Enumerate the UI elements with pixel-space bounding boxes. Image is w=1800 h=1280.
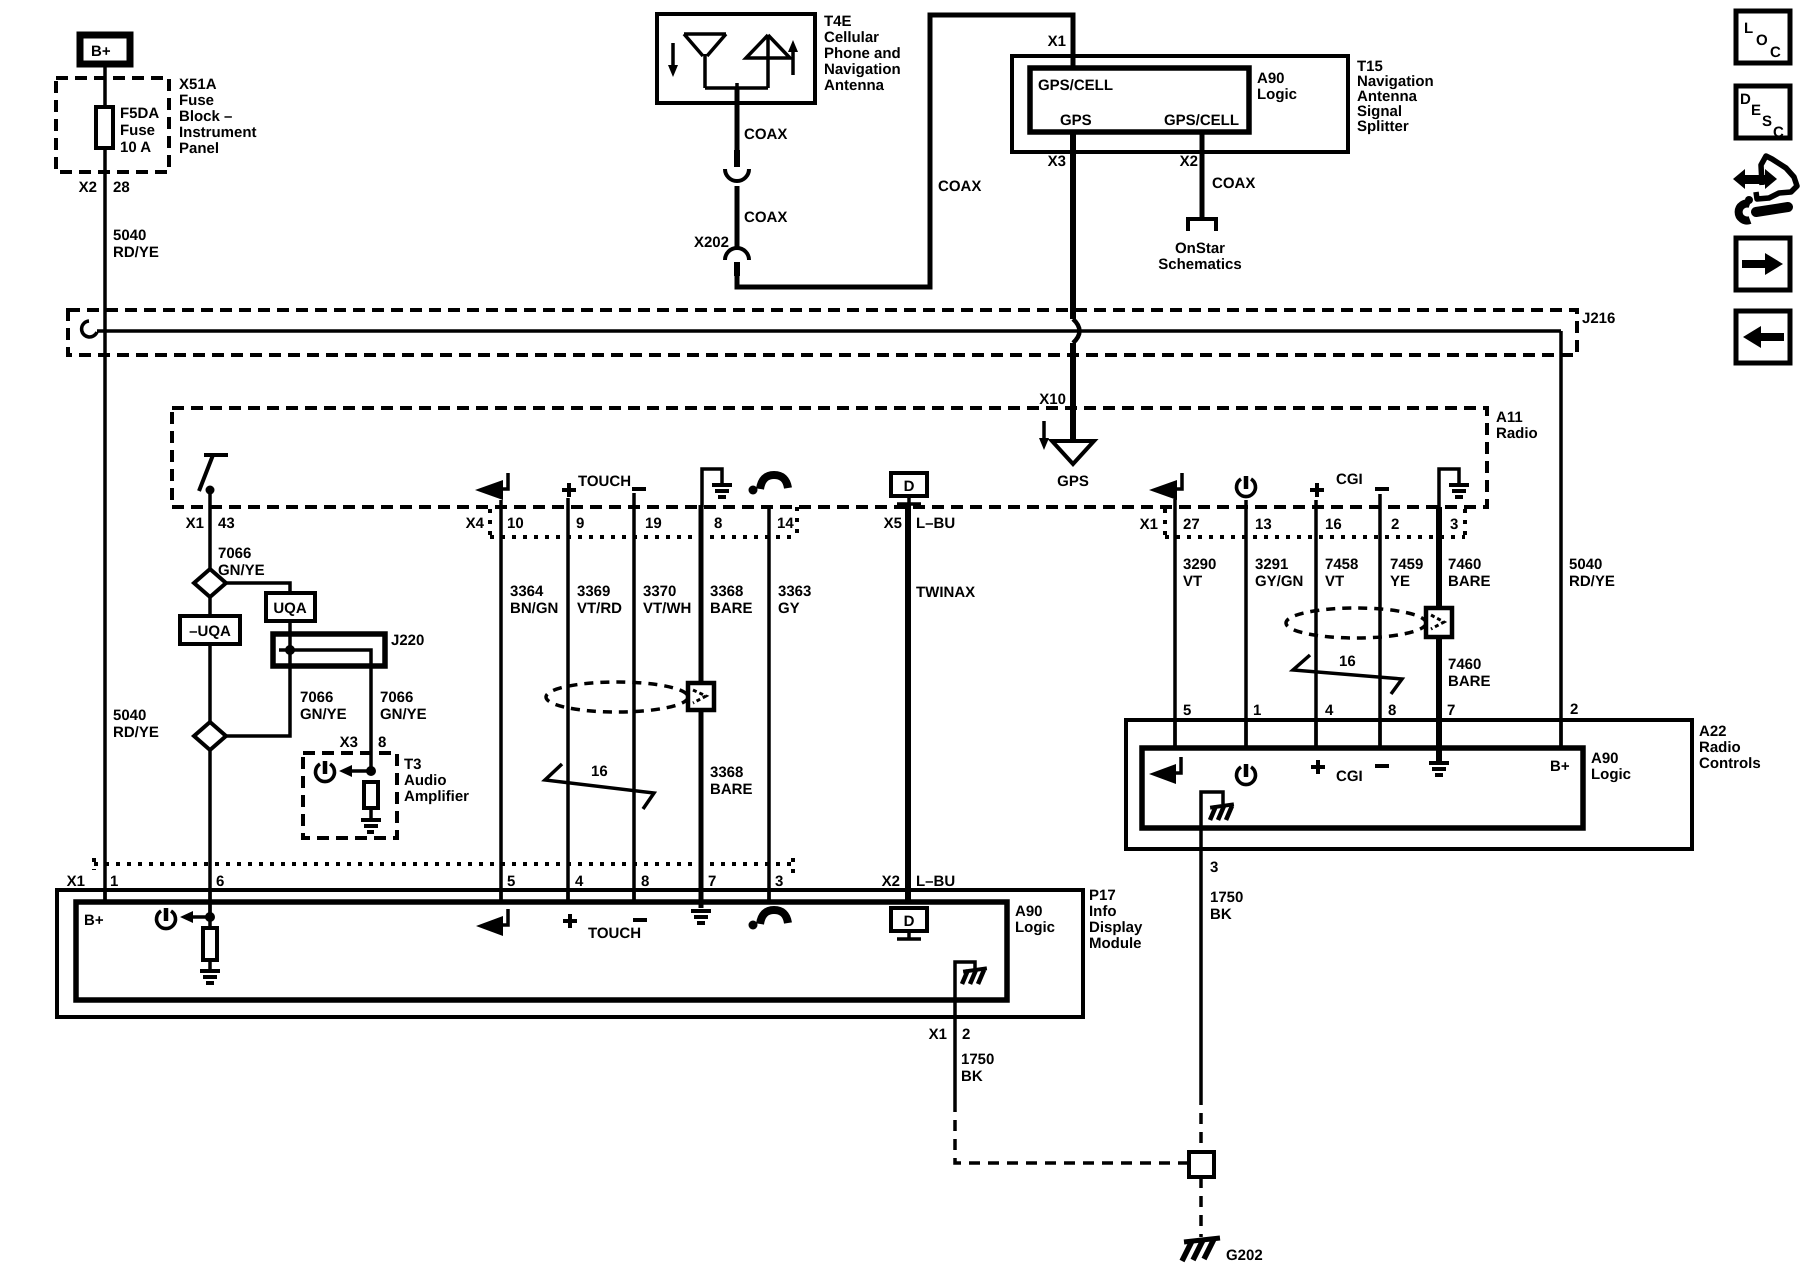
svg-text:5: 5 xyxy=(1183,702,1191,719)
wire 5040 RD/YE J216 to A22 pin 2 xyxy=(1559,331,1563,748)
svg-text:4: 4 xyxy=(575,873,584,890)
svg-text:Logic: Logic xyxy=(1257,86,1297,103)
UQA box xyxy=(266,593,315,621)
wire 3369 VT/RD pin9 to P17 pin4 xyxy=(566,498,570,902)
radio display icon D xyxy=(891,473,927,504)
gps coax wire splitter X3 to radio X10 xyxy=(1070,132,1076,455)
wire label 7458 VT xyxy=(1325,556,1358,590)
A22 CGI minus xyxy=(1375,764,1389,768)
ground splice box xyxy=(1189,1152,1214,1177)
svg-text:X2: X2 xyxy=(1180,153,1198,170)
P17 TOUCH minus xyxy=(633,918,647,922)
svg-text:BK: BK xyxy=(961,1068,983,1085)
wire 3290 VT pin27 to A22 pin5 xyxy=(1173,499,1177,748)
svg-text:Instrument: Instrument xyxy=(179,124,257,141)
wire 7460 BARE pin3 to A22 pin7 xyxy=(1436,507,1442,762)
svg-text:Fuse: Fuse xyxy=(179,92,214,109)
svg-text:3: 3 xyxy=(1450,516,1458,533)
svg-text:T3: T3 xyxy=(404,756,422,773)
svg-text:X202: X202 xyxy=(694,234,729,251)
svg-text:6: 6 xyxy=(216,873,224,890)
wire label 7066 GN/YE right branch xyxy=(380,689,427,723)
svg-text:S: S xyxy=(1762,113,1772,130)
svg-text:8: 8 xyxy=(1388,702,1396,719)
svg-text:COAX: COAX xyxy=(938,178,981,195)
radio name label A11 xyxy=(1496,409,1538,442)
P17 info display module outer box xyxy=(57,890,1083,1017)
svg-text:J216: J216 xyxy=(1582,310,1615,327)
wire label 3291 GY/GN xyxy=(1255,556,1303,590)
svg-text:3: 3 xyxy=(1210,859,1218,876)
svg-text:Phone and: Phone and xyxy=(824,45,901,62)
P17 phone icon xyxy=(749,910,789,930)
svg-text:X2: X2 xyxy=(882,873,900,890)
svg-text:Logic: Logic xyxy=(1591,766,1631,783)
svg-text:Audio: Audio xyxy=(404,772,447,789)
svg-text:10 A: 10 A xyxy=(120,139,151,156)
svg-text:1: 1 xyxy=(110,873,118,890)
shield termination square right xyxy=(1426,608,1452,637)
wire diamond chain mid xyxy=(208,597,212,722)
wire label 3369 VT/RD xyxy=(577,583,622,617)
svg-text:3364: 3364 xyxy=(510,583,544,600)
coax wire X202 to splitter X1 xyxy=(734,262,740,276)
antenna name label T4E xyxy=(824,13,901,94)
svg-text:X2: X2 xyxy=(79,179,97,196)
T3 name label xyxy=(404,756,469,805)
svg-text:GY/GN: GY/GN xyxy=(1255,573,1303,590)
svg-text:P17: P17 xyxy=(1089,887,1116,904)
svg-text:3368: 3368 xyxy=(710,764,743,781)
radio speaker icon xyxy=(475,473,508,500)
svg-text:3370: 3370 xyxy=(643,583,676,600)
svg-text:RD/YE: RD/YE xyxy=(1569,573,1615,590)
svg-text:GY: GY xyxy=(778,600,800,617)
A22 A90 Logic label xyxy=(1591,750,1631,783)
P17 A90 logic inner box xyxy=(76,902,1007,1000)
P17 name label xyxy=(1089,887,1143,952)
wire 7459 YE pin2 to A22 pin8 xyxy=(1378,494,1382,748)
P17 pin callout X2 L-BU xyxy=(882,873,956,890)
svg-text:Amplifier: Amplifier xyxy=(404,788,469,805)
radio CGI minus xyxy=(1375,487,1389,491)
radio connector X1 dotted outline right xyxy=(1140,509,1465,537)
receive arrow xyxy=(668,43,678,77)
svg-text:YE: YE xyxy=(1390,573,1410,590)
svg-text:27: 27 xyxy=(1183,516,1200,533)
svg-text:J220: J220 xyxy=(391,632,424,649)
svg-text:3369: 3369 xyxy=(577,583,610,600)
16-way crossing marker left xyxy=(545,763,654,809)
A22 wires into inner box xyxy=(1175,720,1561,748)
svg-text:TOUCH: TOUCH xyxy=(578,473,631,490)
svg-text:TOUCH: TOUCH xyxy=(588,925,641,942)
svg-text:BARE: BARE xyxy=(1448,673,1491,690)
wire 3370 VT/WH pin19 to P17 pin8 xyxy=(632,493,636,902)
splitter name label T15 xyxy=(1357,58,1434,135)
splitter A90 Logic label xyxy=(1257,70,1297,103)
wire label 7460 BARE lower xyxy=(1448,656,1491,690)
OnStar off-page connector xyxy=(1188,219,1216,231)
radio CGI plus xyxy=(1310,483,1324,497)
svg-text:7066: 7066 xyxy=(380,689,413,706)
svg-text:BARE: BARE xyxy=(710,600,753,617)
svg-text:RD/YE: RD/YE xyxy=(113,724,159,741)
svg-text:BN/GN: BN/GN xyxy=(510,600,558,617)
svg-text:Panel: Panel xyxy=(179,140,219,157)
svg-text:4: 4 xyxy=(1325,702,1334,719)
svg-text:1: 1 xyxy=(1253,702,1261,719)
svg-text:T4E: T4E xyxy=(824,13,852,30)
radio TOUCH minus xyxy=(632,487,646,491)
svg-text:X10: X10 xyxy=(1039,391,1066,408)
wire label 3368 BARE lower xyxy=(710,764,753,798)
radio ground icon pin 8 xyxy=(702,469,732,507)
wire 3364 BN/GN pin10 to P17 pin5 xyxy=(499,500,503,902)
svg-text:C: C xyxy=(1770,44,1781,61)
P17 speaker icon xyxy=(476,909,508,936)
wire label 3290 VT xyxy=(1183,556,1216,590)
svg-text:Radio: Radio xyxy=(1699,739,1741,756)
svg-text:14: 14 xyxy=(777,515,794,532)
svg-text:OnStar: OnStar xyxy=(1175,240,1225,257)
P17 arrow to power xyxy=(180,911,215,923)
svg-text:19: 19 xyxy=(645,515,662,532)
fuse F5DA xyxy=(96,107,113,148)
fuse block X51A dashed box xyxy=(56,78,169,172)
coax wire between connector halves xyxy=(735,186,740,247)
splitter A90 logic inner box xyxy=(1030,68,1249,132)
svg-text:D: D xyxy=(904,913,915,930)
wire diamond lower to P17 pin 6 xyxy=(208,750,212,917)
svg-text:BARE: BARE xyxy=(1448,573,1491,590)
P17 ground wire down xyxy=(953,1015,957,1101)
wire diamond to UQA xyxy=(226,583,290,593)
T3 power icon xyxy=(316,761,335,782)
dashed wire to G202 xyxy=(1199,1177,1203,1237)
svg-text:7459: 7459 xyxy=(1390,556,1423,573)
svg-text:7066: 7066 xyxy=(218,545,251,562)
svg-text:A90: A90 xyxy=(1591,750,1619,767)
svg-text:CGI: CGI xyxy=(1336,768,1363,785)
svg-text:X5: X5 xyxy=(884,515,902,532)
P17 pin callout X1 1 xyxy=(67,873,119,890)
P17 power icon xyxy=(157,908,176,929)
P17 display icon D xyxy=(891,908,927,939)
sidebar component-view icon (double arrow, car outline, wrench) xyxy=(1733,156,1797,221)
OnStar Schematics label xyxy=(1158,240,1241,273)
dashed ground wire from A22 xyxy=(1199,1094,1203,1150)
svg-text:UQA: UQA xyxy=(273,600,307,617)
svg-text:8: 8 xyxy=(714,515,722,532)
fuse value label xyxy=(120,105,159,156)
svg-text:GN/YE: GN/YE xyxy=(380,706,427,723)
svg-text:7460: 7460 xyxy=(1448,656,1481,673)
svg-text:COAX: COAX xyxy=(744,209,787,226)
T3 pin callout X3 8 xyxy=(340,734,387,751)
splitter T15 outer box xyxy=(1012,56,1348,152)
wire UQA through J220 to lower run xyxy=(226,621,290,736)
svg-text:VT/RD: VT/RD xyxy=(577,600,622,617)
antenna feed joiner xyxy=(705,83,768,88)
svg-text:3: 3 xyxy=(775,873,783,890)
16-way crossing marker right xyxy=(1293,653,1402,694)
P17 connector dotted line xyxy=(94,858,794,876)
svg-text:7460: 7460 xyxy=(1448,556,1481,573)
svg-text:16: 16 xyxy=(591,763,608,780)
P17 ground below resistor xyxy=(200,960,220,983)
svg-text:Radio: Radio xyxy=(1496,425,1538,442)
coax wire X2 to OnStar xyxy=(1200,132,1205,218)
svg-text:3368: 3368 xyxy=(710,583,743,600)
svg-text:Cellular: Cellular xyxy=(824,29,879,46)
gps antenna symbol xyxy=(746,35,790,88)
radio antenna switch icon xyxy=(199,455,228,495)
transmit arrow xyxy=(788,40,798,75)
wire J220 to T3 pin 8 xyxy=(369,664,373,771)
A22 CGI plus xyxy=(1311,760,1325,774)
shield ellipse left xyxy=(546,682,688,712)
A22 A90 logic inner box xyxy=(1142,748,1583,828)
svg-text:E: E xyxy=(1751,102,1761,119)
A22 radio controls outer box xyxy=(1126,720,1692,849)
A22 power icon xyxy=(1237,764,1256,785)
wire label 5040 RD/YE mid xyxy=(113,707,159,741)
radio phone icon xyxy=(749,475,789,495)
cellular antenna symbol xyxy=(684,34,726,88)
svg-text:2: 2 xyxy=(1570,701,1578,718)
harness bus line with hook xyxy=(82,321,1561,337)
connector X2 pin 28 callout xyxy=(79,179,130,196)
T3 audio amplifier dashed box xyxy=(303,753,397,838)
svg-text:GPS: GPS xyxy=(1060,112,1092,129)
wire 3291 GY/GN pin13 to A22 pin1 xyxy=(1244,500,1248,748)
radio TOUCH plus xyxy=(562,483,576,497)
wire label 7459 YE xyxy=(1390,556,1423,590)
svg-text:3290: 3290 xyxy=(1183,556,1216,573)
radio power icon xyxy=(1237,476,1256,497)
antenna T4E box xyxy=(657,14,815,103)
svg-text:Fuse: Fuse xyxy=(120,122,155,139)
sidebar LOC button xyxy=(1736,11,1790,63)
svg-text:X3: X3 xyxy=(1048,153,1066,170)
svg-text:COAX: COAX xyxy=(744,126,787,143)
radio pin numbers X1 group xyxy=(1183,516,1458,533)
svg-text:X1: X1 xyxy=(186,515,204,532)
svg-text:L–BU: L–BU xyxy=(916,873,955,890)
svg-text:VT: VT xyxy=(1183,573,1202,590)
svg-text:Antenna: Antenna xyxy=(824,77,885,94)
gps receive arrow xyxy=(1039,421,1049,450)
splice diamond lower xyxy=(194,722,226,750)
svg-text:5040: 5040 xyxy=(1569,556,1602,573)
svg-text:A11: A11 xyxy=(1496,409,1523,426)
splice diamond upper xyxy=(194,569,226,597)
svg-text:8: 8 xyxy=(378,734,386,751)
svg-text:43: 43 xyxy=(218,515,235,532)
junction J220 box xyxy=(273,634,385,666)
svg-text:C: C xyxy=(1773,124,1784,141)
P17 wires into inner box xyxy=(105,890,769,917)
svg-text:28: 28 xyxy=(113,179,130,196)
coax wire antenna to connector xyxy=(735,88,740,150)
svg-text:Module: Module xyxy=(1089,935,1142,952)
wire 7458 VT pin16 to A22 pin4 xyxy=(1314,500,1318,748)
wire label 5040 RD/YE upper xyxy=(113,227,159,261)
svg-text:TWINAX: TWINAX xyxy=(916,584,975,601)
power feed B+ terminal xyxy=(80,35,130,64)
wire TWINAX X5 to P17 X2 xyxy=(905,505,911,902)
svg-text:X3: X3 xyxy=(340,734,358,751)
svg-text:3291: 3291 xyxy=(1255,556,1288,573)
svg-text:A90: A90 xyxy=(1015,903,1043,920)
P17 pin callout X1 2 xyxy=(929,1026,971,1043)
svg-text:O: O xyxy=(1756,32,1768,49)
svg-text:X51A: X51A xyxy=(179,76,217,93)
svg-text:–UQA: –UQA xyxy=(189,623,231,640)
sidebar next button xyxy=(1736,238,1790,290)
svg-text:Display: Display xyxy=(1089,919,1143,936)
svg-text:CGI: CGI xyxy=(1336,471,1363,488)
svg-text:F5DA: F5DA xyxy=(120,105,159,122)
svg-text:5040: 5040 xyxy=(113,227,146,244)
svg-text:Schematics: Schematics xyxy=(1158,256,1241,273)
wire label 3364 BN/GN xyxy=(510,583,558,617)
svg-text:Controls: Controls xyxy=(1699,755,1761,772)
svg-text:Info: Info xyxy=(1089,903,1117,920)
svg-text:8: 8 xyxy=(641,873,649,890)
wire 5040 RD/YE from fuse to P17 pin 1 xyxy=(103,64,107,902)
wire label 3370 VT/WH xyxy=(643,583,691,617)
radio A11 dashed box xyxy=(172,408,1487,507)
wire label 7460 BARE xyxy=(1448,556,1491,590)
A22 chassis ground branch xyxy=(1201,792,1234,1094)
svg-text:Splitter: Splitter xyxy=(1357,118,1409,135)
svg-text:Logic: Logic xyxy=(1015,919,1055,936)
svg-text:2: 2 xyxy=(1391,516,1399,533)
radio pin callout X1 43 xyxy=(186,515,235,532)
crossover hop at J216 xyxy=(1073,319,1080,343)
svg-text:GPS: GPS xyxy=(1057,473,1089,490)
svg-text:16: 16 xyxy=(1339,653,1356,670)
wire label 3363 GY xyxy=(778,583,811,617)
A22 name label xyxy=(1699,723,1761,772)
svg-text:Navigation: Navigation xyxy=(824,61,901,78)
svg-text:13: 13 xyxy=(1255,516,1272,533)
svg-text:GPS/CELL: GPS/CELL xyxy=(1038,77,1113,94)
in-line connector lower half X202 xyxy=(725,248,749,260)
ground G202 symbol xyxy=(1182,1238,1220,1261)
svg-text:7: 7 xyxy=(1447,702,1455,719)
svg-text:VT/WH: VT/WH xyxy=(643,600,691,617)
radio connector X4 dotted outline xyxy=(466,507,797,537)
svg-text:GPS/CELL: GPS/CELL xyxy=(1164,112,1239,129)
wire 3363 GY pin14 to P17 pin3 xyxy=(767,505,771,902)
wire label 5040 RD/YE right xyxy=(1569,556,1615,590)
radio ground icon pin 3 xyxy=(1439,469,1469,507)
svg-text:B+: B+ xyxy=(1550,758,1570,775)
svg-text:X4: X4 xyxy=(466,515,485,532)
sidebar back button xyxy=(1736,311,1790,363)
svg-text:1750: 1750 xyxy=(961,1051,994,1068)
svg-text:7066: 7066 xyxy=(300,689,333,706)
minus UQA box xyxy=(180,616,240,644)
P17 ground icon pin 7 xyxy=(691,911,711,923)
svg-text:X1: X1 xyxy=(1140,516,1158,533)
gps antenna triangle at radio xyxy=(1052,441,1094,464)
wire label 7066 GN/YE left branch xyxy=(300,689,347,723)
svg-text:9: 9 xyxy=(576,515,584,532)
svg-text:X1: X1 xyxy=(1048,33,1066,50)
T3 resistor xyxy=(364,782,378,808)
radio pin callout X5 L-BU xyxy=(884,515,956,532)
svg-text:BARE: BARE xyxy=(710,781,753,798)
svg-text:GN/YE: GN/YE xyxy=(218,562,265,579)
P17 chassis ground branch xyxy=(955,962,987,1017)
sidebar DESC button xyxy=(1736,86,1790,141)
P17 A90 Logic label xyxy=(1015,903,1055,936)
svg-text:D: D xyxy=(904,478,915,495)
T3 ground xyxy=(361,808,381,832)
svg-text:1750: 1750 xyxy=(1210,889,1243,906)
svg-text:7: 7 xyxy=(708,873,716,890)
svg-text:D: D xyxy=(1740,91,1751,108)
svg-text:BK: BK xyxy=(1210,906,1232,923)
svg-text:VT: VT xyxy=(1325,573,1344,590)
svg-text:X1: X1 xyxy=(67,873,85,890)
P17 TOUCH plus xyxy=(563,914,577,928)
svg-text:A22: A22 xyxy=(1699,723,1727,740)
svg-text:L–BU: L–BU xyxy=(916,515,955,532)
svg-text:7458: 7458 xyxy=(1325,556,1358,573)
svg-text:RD/YE: RD/YE xyxy=(113,244,159,261)
wire 7066 GN/YE pin43 down xyxy=(208,490,212,569)
radio pin numbers X4 group xyxy=(507,515,794,532)
svg-text:2: 2 xyxy=(962,1026,970,1043)
svg-text:B+: B+ xyxy=(84,912,104,929)
svg-text:GN/YE: GN/YE xyxy=(300,706,347,723)
svg-text:3363: 3363 xyxy=(778,583,811,600)
wire 3368 BARE pin8 to P17 pin7 xyxy=(699,505,704,902)
svg-text:16: 16 xyxy=(1325,516,1342,533)
P17 resistor xyxy=(203,917,217,960)
svg-text:5040: 5040 xyxy=(113,707,146,724)
svg-text:X1: X1 xyxy=(929,1026,947,1043)
wire label 7066 GN/YE upper xyxy=(218,545,265,579)
shield ellipse right xyxy=(1286,608,1426,638)
wire label 1750 BK right xyxy=(1210,889,1243,923)
svg-text:COAX: COAX xyxy=(1212,175,1255,192)
svg-text:10: 10 xyxy=(507,515,524,532)
shield termination square left xyxy=(688,683,714,710)
svg-text:B+: B+ xyxy=(91,43,111,60)
wire label 3368 BARE xyxy=(710,583,753,617)
svg-text:Block –: Block – xyxy=(179,108,232,125)
radio speaker icon right xyxy=(1149,473,1182,500)
svg-text:L: L xyxy=(1744,20,1753,37)
wire label 1750 BK left xyxy=(961,1051,994,1085)
in-line connector upper half xyxy=(725,169,749,181)
dashed ground wire from P17 xyxy=(955,1101,1187,1163)
A22 ground icon pin 7 xyxy=(1429,763,1449,775)
svg-text:G202: G202 xyxy=(1226,1247,1263,1264)
harness J216 dashed box xyxy=(68,310,1577,355)
svg-text:A90: A90 xyxy=(1257,70,1285,87)
fuse block name label xyxy=(179,76,257,157)
T3 arrow to power xyxy=(339,765,376,777)
A22 speaker icon xyxy=(1149,757,1181,784)
svg-text:5: 5 xyxy=(507,873,515,890)
